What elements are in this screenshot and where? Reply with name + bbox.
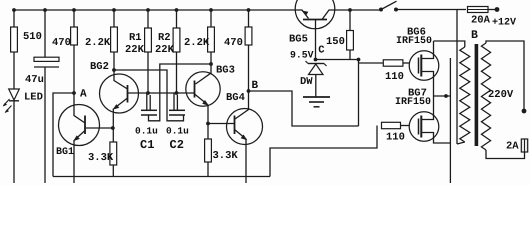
svg-text:22K: 22K	[155, 44, 175, 56]
node rail-510	[12, 8, 16, 12]
wire secondary top	[486, 41, 524, 111]
terminal +12V	[495, 7, 500, 12]
wire 47u top lead	[44, 10, 46, 57]
mosfet BG6 drain lead	[421, 41, 433, 59]
transistor BG2 collector	[114, 70, 128, 89]
wire 510 top lead	[13, 10, 15, 27]
LED D1	[9, 89, 20, 100]
wire zener to ground	[315, 75, 317, 97]
transistor BG4 collector	[235, 91, 249, 119]
wire lower rail riser	[270, 126, 377, 177]
svg-text:2.2K: 2.2K	[184, 37, 210, 49]
transistor BG4 base bar	[234, 116, 236, 135]
wire 110a to BG6 gate	[403, 62, 409, 64]
capacitor C1 bottom route	[149, 64, 212, 121]
wire 3.3K right bottom lead	[207, 162, 209, 177]
transistor BG3 base bar	[194, 81, 196, 98]
wire 470b to node B	[248, 45, 250, 91]
mosfet BG7 gate bar	[418, 119, 420, 135]
fuse 20A	[468, 7, 489, 13]
wire top rail switch-to-fuse section	[396, 9, 457, 11]
resistor 2.2K left	[111, 27, 118, 52]
transistor BG3 circle	[186, 72, 220, 106]
svg-text:IRF150: IRF150	[396, 36, 432, 47]
node BG1 base / BG2 emitter	[111, 126, 115, 130]
node rail-2.2Ka	[112, 8, 116, 12]
switch K blade	[381, 1, 397, 9]
node rail-470b	[247, 8, 251, 12]
wire 2.2Kb top lead	[210, 10, 212, 27]
resistor 470 left	[71, 27, 78, 45]
node rail-2.2Kb	[209, 8, 213, 12]
wire R1 bottom lead	[147, 52, 149, 93]
wire 2.2Ka top lead	[113, 10, 115, 27]
svg-text:LED: LED	[24, 92, 43, 104]
resistor R2 22K	[173, 28, 180, 52]
switch K right contact	[394, 8, 398, 12]
resistor 2.2K right	[208, 27, 215, 52]
wire 470a top lead	[73, 10, 75, 27]
svg-text:IRF150: IRF150	[395, 97, 431, 108]
transformer B primary winding	[460, 47, 470, 142]
svg-text:20A: 20A	[471, 15, 491, 27]
wire BG5 base to node C	[315, 20, 317, 60]
node rail-470a	[72, 8, 76, 12]
node rail-R1	[146, 8, 150, 12]
svg-text:9.5V: 9.5V	[290, 50, 314, 61]
transistor BG1 base lead	[85, 127, 113, 129]
transistor BG5 collector	[322, 10, 334, 20]
wire 2.2Ka to BG2 collector node	[113, 52, 115, 70]
wire secondary bottom	[486, 150, 525, 159]
mosfet BG6 channel bar	[420, 55, 422, 77]
transistor BG5 base bar	[303, 19, 327, 21]
svg-text:2.2K: 2.2K	[85, 37, 111, 49]
transistor BG3 collector	[196, 64, 212, 84]
node R1-base	[146, 91, 150, 95]
wire 47u to bottom	[44, 67, 46, 183]
svg-text:BG2: BG2	[90, 61, 109, 73]
svg-text:BG4: BG4	[226, 92, 245, 104]
node BG3 collector	[209, 62, 213, 66]
wire 150 top lead	[349, 10, 351, 31]
wire R2 bottom lead	[176, 52, 178, 93]
wire BG2-BG3 base line	[128, 92, 195, 94]
resistor 150	[347, 31, 354, 51]
transformer B secondary winding	[481, 43, 490, 150]
svg-text:BG5: BG5	[289, 34, 308, 46]
capacitor C1 plates	[141, 109, 157, 111]
svg-text:220V: 220V	[488, 89, 514, 101]
fuse 2A	[521, 139, 527, 152]
transistor BG4 emitter	[235, 130, 247, 140]
mosfet BG7 channel bar	[420, 116, 422, 138]
wire lower rail (A net)	[53, 176, 270, 178]
wire node B to BG6 gate riser	[249, 91, 359, 126]
capacitor C2 plates	[169, 109, 185, 111]
svg-text:A: A	[80, 89, 87, 101]
resistor R1 22K	[145, 28, 152, 52]
wire 3.3K left bottom lead	[112, 165, 114, 177]
transistor BG4 circle	[227, 109, 263, 145]
node B	[247, 89, 251, 93]
wire 150 bottom lead	[349, 50, 351, 60]
wire top +12V rail left section	[14, 9, 297, 11]
svg-text:R1: R1	[129, 32, 142, 44]
node riser top	[357, 58, 361, 62]
zener DW triangle	[309, 64, 324, 75]
transistor BG1 emitter	[75, 131, 86, 141]
svg-text:3.3K: 3.3K	[88, 152, 114, 164]
svg-text:B: B	[252, 80, 259, 92]
wire 510 to LED	[13, 52, 15, 90]
svg-text:C: C	[318, 45, 325, 57]
svg-text:BG1: BG1	[56, 147, 74, 158]
resistor 470 right	[245, 27, 252, 45]
svg-text:B: B	[471, 29, 478, 42]
transistor BG1 circle	[59, 105, 100, 146]
wire 2.2Kb to BG3 collector node	[210, 52, 212, 64]
mosfet BG7 source lead	[421, 133, 450, 144]
mosfet BG6 gate bar	[418, 58, 420, 74]
svg-text:47u: 47u	[25, 74, 44, 86]
svg-text:470: 470	[224, 37, 243, 49]
svg-text:110: 110	[385, 71, 404, 83]
transistor BG1 collector	[74, 93, 85, 123]
wire source bus vertical	[449, 58, 451, 183]
mosfet BG6 circle	[409, 51, 439, 81]
resistor 3.3K left	[110, 142, 117, 165]
resistor 3.3K right	[205, 139, 212, 162]
wire top rail BG5-to-switch section	[334, 9, 381, 11]
node C	[314, 58, 318, 62]
svg-text:150: 150	[326, 36, 345, 48]
capacitor 47u plate-	[34, 66, 59, 68]
transformer B core	[475, 44, 479, 146]
svg-text:0.1u: 0.1u	[135, 126, 158, 137]
resistor 110 lower	[382, 122, 401, 128]
capacitor C2 bottom route	[114, 70, 184, 121]
zener DW cathode bar	[308, 63, 324, 65]
svg-text:22K: 22K	[125, 44, 145, 56]
svg-text:C1: C1	[140, 138, 154, 152]
resistor 510	[11, 27, 18, 52]
wire primary bottom	[457, 142, 465, 144]
wire node C to gate riser	[316, 59, 359, 61]
transistor BG1 base bar	[84, 116, 86, 135]
svg-text:0.1u: 0.1u	[166, 126, 189, 137]
wire 470b top lead	[248, 10, 250, 27]
wire LED to bottom	[13, 101, 15, 184]
svg-text:BG3: BG3	[216, 65, 235, 77]
transistor BG2 emitter	[114, 98, 128, 109]
wire BG4 base lead	[208, 123, 235, 125]
svg-text:2A: 2A	[506, 141, 519, 153]
svg-text:110: 110	[386, 132, 405, 144]
mosfet BG7 circle	[409, 112, 439, 142]
transistor BG3 emitter	[195, 94, 208, 105]
mosfet BG7 drain lead	[421, 96, 433, 120]
wire 110b to BG7 gate	[401, 125, 410, 127]
wire rail corner to fuse	[457, 9, 466, 11]
capacitor C2 top leads	[173, 94, 175, 111]
ground	[303, 96, 330, 98]
wire 470a to node A	[73, 45, 75, 93]
wire gate riser to 110a	[359, 62, 384, 64]
svg-text:R2: R2	[158, 32, 171, 44]
wire BG6 gate riser	[358, 60, 360, 127]
wire BG6 source bus	[434, 95, 451, 97]
wire center tap from +12V	[456, 10, 458, 145]
transistor BG2 base bar	[127, 85, 129, 103]
wire fuse to terminal	[488, 9, 495, 11]
wire node A to lower rail	[53, 93, 74, 177]
resistor 110 upper	[383, 60, 403, 66]
wire R2 top lead	[176, 10, 178, 28]
node BG4 base / BG3 emitter	[206, 122, 210, 126]
mosfet BG6 source lead	[421, 72, 433, 97]
resistor 3.3K right lead	[207, 124, 209, 140]
node BG2 collector	[112, 68, 116, 72]
capacitor C1 top leads	[146, 94, 148, 111]
svg-text:+12V: +12V	[492, 18, 516, 29]
node source-drain junction	[444, 94, 448, 98]
svg-text:C2: C2	[170, 138, 184, 152]
node rail-R2	[175, 8, 179, 12]
svg-text:DW: DW	[300, 76, 313, 88]
transistor BG5 emitter	[296, 10, 309, 19]
node rail-47u	[43, 8, 47, 12]
node A	[72, 91, 76, 95]
capacitor 47u plate+	[34, 57, 59, 61]
wire BG6 drain to primary top	[434, 41, 465, 47]
svg-text:470: 470	[52, 37, 71, 49]
node R2-base	[175, 91, 179, 95]
transistor BG5 circle	[295, 0, 335, 29]
svg-text:510: 510	[23, 31, 42, 43]
svg-text:3.3K: 3.3K	[213, 150, 239, 162]
node rail-150	[348, 8, 352, 12]
transistor BG2 circle	[100, 74, 139, 113]
wire R1 top lead	[147, 10, 149, 28]
terminal 220V top	[522, 109, 527, 114]
